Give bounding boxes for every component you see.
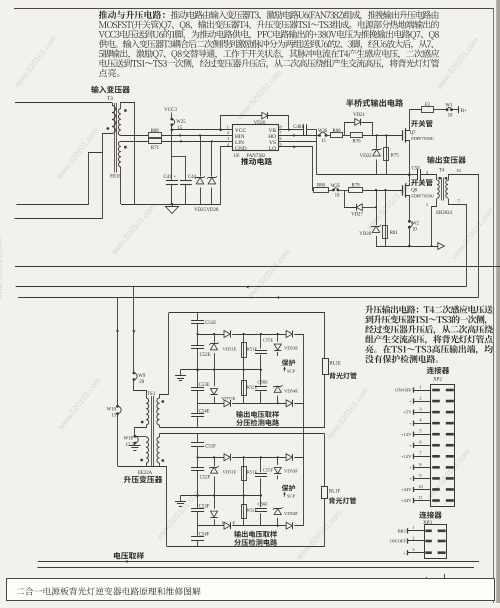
wire bus B (16, 286, 467, 288)
svg-text:VD54E: VD54E (284, 389, 298, 394)
svg-text:3: 3 (412, 547, 414, 552)
svg-text:10: 10 (335, 194, 340, 199)
label 连接器 XP3 (419, 511, 442, 518)
svg-text:R79: R79 (352, 184, 361, 189)
capacitor C54F (197, 512, 199, 537)
capacitor C50 (409, 174, 417, 176)
svg-text:2: 2 (419, 395, 421, 400)
svg-text:EE22A: EE22A (138, 471, 153, 476)
transformer TS3 secondary lower winding (157, 437, 160, 463)
zener diode VD22 (376, 135, 378, 174)
jumper W9 (133, 372, 136, 375)
svg-text:W1: W1 (446, 103, 454, 108)
capacitor C51E (197, 313, 199, 321)
svg-text:W35: W35 (331, 184, 341, 189)
svg-text:C401: C401 (293, 125, 304, 130)
wire TS3 lower secondary to F box (159, 434, 161, 438)
wire R79 to Q8 gate (362, 190, 402, 192)
zener diode VD28 input clamp (211, 141, 213, 204)
svg-text:F2: F2 (425, 103, 431, 108)
label 电压取样 (114, 552, 144, 559)
connector XP2 pin 5 (414, 434, 432, 436)
op-amp U6 FAN7382 driver IC (233, 125, 279, 151)
svg-text:1: 1 (412, 525, 414, 530)
wire Q7 drain to fuse (410, 110, 422, 127)
svg-text:15: 15 (321, 139, 326, 144)
diode VD20 bootstrap (219, 129, 222, 132)
svg-text:W36: W36 (318, 129, 328, 134)
diode VD27 parallel branch (345, 191, 357, 208)
wire bus A (15, 266, 500, 268)
svg-text:C51E: C51E (205, 321, 216, 326)
wire F bottom row (198, 525, 304, 527)
connector XP3 pin 1 (408, 530, 425, 532)
svg-text:7: 7 (279, 130, 281, 135)
jumper W36 (318, 134, 321, 137)
wire E lamp drop (324, 313, 326, 359)
connector XP2 pin 11 (414, 500, 432, 502)
connector XP2 pin 4 (414, 423, 432, 425)
diode E bottom row right (286, 399, 294, 407)
svg-text:C55F: C55F (263, 467, 274, 472)
label 推动电路 (241, 158, 272, 165)
svg-text:www.520101.com: www.520101.com (56, 376, 103, 432)
wire E box top (169, 312, 325, 314)
connector XP2 pin 3 (414, 412, 432, 414)
svg-text:VD54F: VD54F (284, 511, 298, 516)
page right border (493, 8, 495, 603)
ground rail under driver (121, 204, 221, 206)
wire TS3 upper secondary bottom (159, 425, 161, 428)
transistor Q7 MOSFET (402, 130, 404, 140)
wire VS pin6 (278, 141, 317, 143)
svg-text:R70: R70 (353, 140, 362, 145)
svg-text:+: + (409, 476, 412, 481)
svg-text:VD27: VD27 (351, 212, 363, 217)
zener diode VD25 (200, 135, 202, 204)
svg-text:VCC3: VCC3 (164, 108, 177, 113)
zener diode VD28 gate clamp (376, 190, 378, 246)
svg-text:C43: C43 (164, 175, 173, 180)
svg-text:W9: W9 (138, 374, 146, 379)
wire HO to Q7 gate (362, 135, 403, 137)
wire half-bridge midpoint (317, 174, 410, 176)
wire F lamp drop (324, 434, 326, 487)
capacitor C53F (197, 495, 199, 508)
svg-text:FDPF7N50U: FDPF7N50U (411, 193, 435, 198)
svg-text:T3: T3 (107, 96, 113, 102)
lamp RL1F backlight (322, 487, 328, 499)
zener diode VD51E (214, 334, 216, 370)
svg-text:VD21: VD21 (353, 113, 365, 118)
svg-text:T4: T4 (439, 169, 445, 174)
svg-text:2: 2 (412, 535, 414, 540)
transistor Q8 MOSFET (402, 185, 404, 195)
svg-text:www.520101.com: www.520101.com (449, 206, 496, 262)
wire LO pin5 (279, 147, 313, 191)
resistor R70 (351, 133, 363, 138)
capacitor C44 (172, 156, 186, 158)
connector XP2 pin 8 (414, 467, 432, 469)
jumper W2 (408, 220, 411, 223)
svg-text:+: + (174, 175, 177, 180)
capacitor C55E (260, 334, 262, 349)
svg-text:+24V: +24V (401, 498, 412, 503)
svg-text:C56F: C56F (258, 501, 269, 506)
svg-text:R81: R81 (390, 231, 399, 236)
svg-text:SCP: SCP (287, 494, 296, 499)
page edge shadow band (496, 0, 500, 603)
svg-text:VD53E: VD53E (284, 345, 298, 350)
svg-text:8: 8 (279, 125, 281, 130)
wire U6 GND pin4 (221, 147, 233, 205)
protection label SCP (282, 359, 295, 366)
svg-text:10: 10 (418, 484, 422, 489)
svg-text:C56E: C56E (258, 379, 269, 384)
svg-text:C55E: C55E (263, 337, 274, 342)
wire F lamp bottom (324, 499, 326, 547)
svg-text:6: 6 (279, 136, 281, 141)
svg-text:2: 2 (227, 130, 229, 135)
transformer T3 secondary winding upper (118, 109, 121, 136)
capacitor C43 (171, 180, 173, 184)
svg-text:10: 10 (412, 228, 417, 233)
resistor R52F (243, 495, 245, 525)
svg-text:1: 1 (419, 384, 421, 389)
svg-text:VD28: VD28 (207, 208, 219, 213)
ground symbol (166, 207, 179, 214)
svg-text:VD51E: VD51E (223, 346, 237, 351)
transformer TS3 primary lower winding (146, 437, 149, 463)
wire HO pin7 (278, 135, 320, 137)
label 输出电压取样 E (236, 411, 279, 418)
svg-text:www.520101.com: www.520101.com (109, 202, 157, 257)
label 输出电压取样 F (234, 531, 277, 538)
wire Q8 source (409, 199, 411, 222)
wire VB (278, 129, 303, 131)
svg-text:+12V: +12V (401, 454, 412, 459)
svg-text:+: + (409, 465, 412, 470)
diode VD53E protection tap (277, 334, 279, 356)
diode E top row right (286, 330, 294, 338)
resistor R51F (243, 457, 245, 495)
wire T4 pin1 (432, 199, 437, 247)
svg-text:R75: R75 (391, 154, 400, 159)
wire T4 pin7 to bus (449, 199, 467, 287)
transformer TS3 core (151, 396, 153, 466)
wire right rail shared (303, 334, 305, 526)
transformer T3 primary winding (112, 103, 114, 106)
svg-text:www.520101.com: www.520101.com (434, 36, 481, 92)
capacitor C55F (260, 457, 262, 472)
svg-text:EE16: EE16 (110, 175, 121, 180)
wire E box bottom (160, 427, 326, 429)
connector XP2 pin 6 (414, 445, 432, 447)
svg-text:6: 6 (419, 440, 422, 445)
svg-text:ON/OFF: ON/OFF (390, 539, 407, 544)
svg-text:www.520101.com: www.520101.com (0, 237, 4, 301)
svg-text:R80: R80 (317, 184, 326, 189)
resistor R52E (243, 370, 245, 404)
wire voltage sampling 2 (38, 567, 475, 569)
label 输出变压器 (427, 156, 466, 163)
wire VS vertical (316, 130, 318, 175)
wire R71 to LIN (161, 141, 233, 143)
wire Q8 gate row (313, 190, 314, 192)
svg-text:10: 10 (448, 114, 453, 119)
svg-text:GND: GND (235, 146, 247, 152)
resistor R71 (121, 141, 149, 143)
wire W10 drop from bus C (117, 298, 119, 407)
label 连接器 XP2 (427, 367, 450, 374)
svg-text:ON/OFF: ON/OFF (395, 388, 412, 393)
svg-text:VD28: VD28 (359, 232, 371, 237)
jumper W35 (332, 189, 335, 192)
svg-text:www.520101.com: www.520101.com (244, 247, 292, 302)
svg-text:11: 11 (418, 495, 422, 500)
protection label SCP F (282, 485, 295, 492)
diode E bottom row left (224, 399, 232, 407)
wire TS3 lower secondary bottom drop (166, 467, 168, 547)
resistor R51E (243, 334, 245, 370)
wire F box bottom (167, 546, 325, 548)
connector XP3 pin 2 (408, 540, 425, 542)
diode F top row right (286, 453, 294, 461)
wire E mid rail (198, 369, 261, 371)
diode F bottom row left (224, 522, 232, 530)
svg-text:VD20: VD20 (254, 121, 266, 126)
ground symbol E mid (181, 369, 198, 371)
svg-text:R71: R71 (151, 146, 160, 151)
svg-text:C44: C44 (188, 175, 197, 180)
capacitor C401 (303, 124, 305, 135)
svg-text:C53F: C53F (199, 504, 210, 509)
connector XP3 pin 3 (408, 552, 425, 554)
connector XP2 pin 9 (414, 478, 432, 480)
svg-text:XP2: XP2 (433, 378, 442, 383)
ground symbol F mid (181, 495, 198, 497)
zener diode VD52E (214, 370, 216, 404)
wire TS3 bottom rail (118, 466, 168, 468)
wire F mid rail (198, 495, 261, 497)
resistor R68 (121, 135, 148, 137)
wire VCC3 down to C43 (171, 130, 173, 204)
svg-text:7: 7 (457, 199, 460, 204)
svg-text:www.520101.com: www.520101.com (294, 508, 344, 562)
arrow to voltage sampling (438, 243, 445, 250)
connector XP2 pin 7 (414, 456, 432, 458)
svg-text:W18: W18 (124, 437, 134, 442)
wire T3 secondary lower bottom to ground rail (120, 167, 122, 204)
svg-text:www.520101.com: www.520101.com (12, 34, 59, 90)
svg-text:C50: C50 (412, 167, 421, 172)
diode E top row left (224, 330, 232, 338)
transformer T3 core (114, 103, 116, 173)
resistor R75 (386, 135, 388, 174)
transformer T3 label 输入变压器 (91, 86, 130, 93)
capacitor C51F (197, 434, 199, 444)
svg-text:+: + (409, 399, 412, 404)
jumper W10 (116, 405, 119, 408)
capacitor C56F (260, 495, 262, 507)
transformer TS3 secondary upper winding (157, 398, 160, 425)
svg-text:C51F: C51F (205, 445, 216, 450)
capacitor C52E (197, 323, 199, 345)
capacitor C56E (260, 370, 262, 386)
wire R68 to HIN (161, 135, 233, 137)
svg-text:8: 8 (419, 462, 421, 467)
svg-text:C52E: C52E (200, 353, 211, 358)
svg-text:SCP: SCP (287, 368, 296, 373)
svg-text:VD25: VD25 (194, 208, 206, 213)
svg-text:7: 7 (419, 451, 422, 456)
svg-text:+24V: +24V (401, 487, 412, 492)
svg-text:R68: R68 (151, 129, 160, 134)
connector XP2 pin 1 (414, 390, 432, 392)
resistor R81 (385, 190, 387, 246)
svg-text:www.520101.com: www.520101.com (364, 178, 414, 232)
svg-text:VD22: VD22 (360, 154, 372, 159)
svg-text:FAN7382: FAN7382 (247, 154, 266, 159)
jumper W25 (171, 113, 173, 120)
svg-text:R60: R60 (333, 129, 342, 134)
wire Q7 source to midpoint (409, 144, 411, 175)
connector XP3 (425, 525, 447, 559)
svg-text:1: 1 (426, 202, 428, 207)
svg-text:W10: W10 (107, 407, 117, 412)
capacitor C54E (197, 390, 199, 413)
jumper W18 and ground (135, 425, 147, 437)
wire Q8 source return (376, 246, 438, 248)
footer title box (7, 579, 495, 601)
svg-text:U6: U6 (234, 154, 240, 159)
right bold paragraph (365, 305, 493, 313)
wire left input top (15, 102, 112, 104)
svg-text:C52F: C52F (200, 476, 211, 481)
svg-text:VD51F: VD51F (223, 470, 237, 475)
wire F box top (160, 433, 325, 435)
diode F top row left (224, 453, 232, 461)
svg-text:13: 13 (111, 414, 116, 419)
svg-text:3: 3 (227, 136, 229, 141)
wire T3 primary bottom return (15, 134, 113, 219)
svg-text:www.520101.com: www.520101.com (324, 386, 371, 442)
capacitor C52F (197, 446, 199, 467)
transformer T3 secondary winding lower (118, 141, 121, 167)
wire W9 drop from bus B (133, 287, 135, 373)
svg-text:4: 4 (419, 418, 422, 423)
svg-text:www.520101.com: www.520101.com (234, 68, 284, 122)
svg-text:LO: LO (269, 146, 276, 152)
wire E lamp bottom (324, 374, 326, 428)
svg-text:10: 10 (456, 168, 461, 173)
zener diode VD52F (214, 495, 216, 525)
svg-text:+: + (409, 421, 412, 426)
wire VCC3 to U6 pin1 (171, 125, 173, 130)
wire T4 pin10 to bus (449, 175, 479, 298)
svg-text:+12V: +12V (401, 432, 412, 437)
svg-text:5: 5 (419, 429, 421, 434)
page top border (14, 8, 494, 10)
svg-text:20: 20 (139, 380, 144, 385)
resistor R60 (326, 135, 331, 137)
wire Q8 drain to midpoint (409, 175, 411, 182)
diode VD54F protection tap (277, 513, 279, 526)
svg-text:+5V: +5V (403, 410, 412, 415)
label 半桥式输出电路 (346, 99, 403, 107)
svg-text:RL1E: RL1E (330, 362, 342, 367)
diode VD54E protection tap (277, 390, 279, 403)
wire TS3 upper secondary top feed (160, 313, 169, 399)
terminal B+ (452, 109, 459, 111)
svg-text:B+: B+ (461, 109, 467, 114)
svg-text:1: 1 (227, 125, 229, 130)
svg-text:+: + (403, 550, 406, 555)
svg-text:+: + (409, 443, 412, 448)
diode VD21 parallel branch (345, 123, 355, 136)
svg-text:RL1F: RL1F (329, 490, 341, 495)
svg-text:BR1: BR1 (398, 528, 407, 533)
wire F top row (198, 457, 304, 459)
resistor R80 (314, 188, 329, 193)
top description paragraph (99, 11, 165, 19)
jumper W1 (446, 108, 449, 111)
wire voltage sampling 1 (38, 561, 479, 563)
connector XP2 (431, 385, 455, 507)
svg-text:3: 3 (419, 407, 421, 412)
wire E bottom row (198, 403, 304, 405)
svg-text:VD53F: VD53F (284, 469, 298, 474)
svg-text:15: 15 (177, 126, 182, 131)
svg-text:C54F: C54F (199, 533, 210, 538)
wire XP3 stubs to page bottom (426, 577, 428, 601)
svg-text:W25: W25 (176, 120, 186, 125)
resistor R79 (349, 188, 363, 193)
label 升压变压器 (124, 476, 163, 483)
diode VD53F protection tap (277, 457, 279, 479)
transformer TS3 primary upper winding (146, 398, 149, 425)
svg-text:FDPF7N50U: FDPF7N50U (411, 136, 435, 141)
wire T3 secondary top to bus (121, 103, 135, 205)
lamp RL1E backlight (323, 359, 329, 375)
svg-text:ER2834: ER2834 (436, 211, 452, 216)
diode F bottom row right (286, 522, 294, 530)
wire E top row (198, 334, 304, 336)
svg-text:W2: W2 (412, 222, 420, 227)
capacitor C53E (197, 370, 199, 388)
wire VD20 to VB (288, 116, 290, 130)
svg-text:C53E: C53E (199, 383, 210, 388)
svg-text:9: 9 (419, 473, 421, 478)
connector XP2 pin 2 (414, 401, 432, 403)
wire TS3 lower primary top (135, 436, 147, 438)
connector XP2 pin 10 (414, 489, 432, 491)
fuse F2 (422, 107, 434, 113)
footer title text (16, 587, 200, 595)
svg-text:www.520101.com: www.520101.com (54, 126, 101, 182)
zener diode VD51F (214, 457, 216, 495)
wire bus C (18, 297, 478, 299)
wire left input branch (17, 153, 103, 205)
svg-text:C54E: C54E (199, 409, 210, 414)
